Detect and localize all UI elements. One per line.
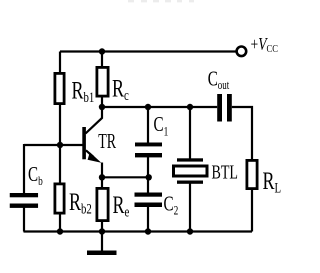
- svg-text:Re: Re: [113, 191, 130, 220]
- svg-text:BTL: BTL: [212, 161, 239, 183]
- wire: bottom ground rail: [24, 230, 253, 232]
- svg-text:Rb2: Rb2: [69, 188, 92, 217]
- wire: Cout to RL branch: [232, 107, 252, 232]
- node: base junction: [57, 142, 63, 148]
- wire: Cb lower stem: [23, 208, 25, 232]
- node: Rc top junction: [99, 48, 105, 54]
- terminal +Vcc: [237, 47, 247, 57]
- svg-text:Cb: Cb: [28, 163, 43, 189]
- transistor TR base bar: [82, 127, 86, 159]
- emitter arrowhead: [88, 152, 102, 163]
- wire: emitter vertical: [101, 163, 103, 178]
- wire: collector diagonal to base bar: [86, 118, 103, 134]
- resistor Rb2: [55, 184, 64, 213]
- node: C1 top junction: [145, 104, 151, 110]
- capacitor Cout: [217, 94, 232, 122]
- node: BTL bottom junction: [187, 228, 193, 234]
- svg-text:Rc: Rc: [112, 75, 129, 104]
- wire: Cb upper stem: [23, 144, 25, 194]
- wire: output node rail to Cout: [102, 106, 217, 108]
- crystal BTL: [174, 158, 208, 184]
- wire: C1 upper stem: [147, 107, 149, 143]
- wire: left column vertical (Rb1/Rb2): [59, 52, 61, 232]
- resistor RL: [247, 160, 257, 188]
- capacitor Cb: [10, 193, 38, 208]
- resistor Rb1: [55, 73, 64, 103]
- node: ground junction: [99, 228, 105, 234]
- svg-text:Cout: Cout: [208, 67, 230, 92]
- wire: BTL lower stem: [189, 184, 191, 232]
- node: C1/C2 junction: [146, 174, 152, 180]
- capacitor C2: [135, 193, 163, 208]
- resistor Re: [97, 188, 108, 220]
- node: C2 bottom junction: [145, 228, 151, 234]
- faint cropped text remnant at top edge: [128, 0, 194, 2]
- wire: Re vertical: [101, 177, 103, 231]
- node: BTL top junction: [187, 104, 193, 110]
- ground: [87, 251, 117, 256]
- svg-text:RL: RL: [263, 167, 282, 196]
- svg-text:C1: C1: [154, 113, 169, 139]
- wire: emitter diagonal: [86, 150, 94, 157]
- wire: ground stem: [101, 232, 103, 251]
- node: Rb2 bottom junction: [57, 228, 63, 234]
- svg-text:C2: C2: [164, 192, 179, 218]
- svg-text:TR: TR: [98, 129, 117, 153]
- svg-text:Rb1: Rb1: [72, 77, 95, 106]
- wire: base lead: [24, 144, 83, 146]
- node: emitter junction: [99, 174, 105, 180]
- resistor Rc: [97, 67, 108, 96]
- wire: C1 lower stem: [147, 157, 149, 177]
- wire: C2 lower stem: [147, 207, 149, 232]
- wire: +Vcc top rail: [60, 50, 236, 52]
- capacitor C1: [135, 143, 162, 158]
- node: collector / output junction: [99, 104, 105, 110]
- wire: BTL upper stem: [189, 107, 191, 159]
- svg-text:+VCC: +VCC: [251, 36, 279, 56]
- wire: C2 upper stem: [147, 177, 149, 193]
- wire: Rc / collector vertical: [101, 52, 103, 119]
- wire: emitter node to C1/C2 node: [102, 176, 149, 178]
